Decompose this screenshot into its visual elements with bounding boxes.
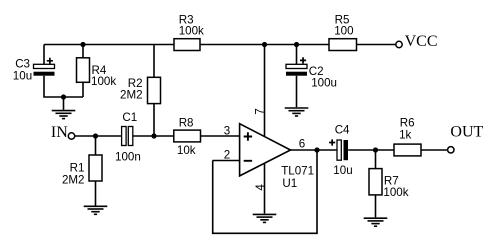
svg-text:OUT: OUT bbox=[450, 124, 483, 141]
node rail-pin7 bbox=[262, 42, 267, 47]
wire C1 to R8 bbox=[133, 135, 174, 137]
svg-text:U1: U1 bbox=[282, 177, 297, 190]
svg-text:100k: 100k bbox=[179, 25, 204, 38]
resistor R5 bbox=[329, 39, 357, 51]
ground under R1 bbox=[84, 206, 108, 214]
capacitor C1 bbox=[122, 127, 133, 146]
svg-text:R8: R8 bbox=[179, 117, 194, 130]
svg-text:IN: IN bbox=[51, 124, 68, 141]
node rail-R4 bbox=[80, 42, 85, 47]
wire C3 bottom to ground node bbox=[44, 76, 83, 97]
svg-text:2M2: 2M2 bbox=[62, 174, 85, 187]
wire R4 bottom bbox=[82, 82, 84, 97]
svg-text:3: 3 bbox=[224, 124, 230, 137]
wire R8 to pin 3 bbox=[201, 135, 240, 137]
capacitor C3 bbox=[34, 58, 55, 76]
wire pin 7 riser bbox=[264, 45, 266, 138]
ground pin 4 bbox=[253, 214, 277, 222]
resistor R3 bbox=[174, 39, 200, 51]
op-amp plus input mark bbox=[244, 132, 252, 140]
resistor R6 bbox=[394, 144, 421, 156]
wire R6 to OUT bbox=[421, 149, 448, 151]
svg-text:10u: 10u bbox=[333, 164, 352, 177]
wire C4 to R6 bbox=[348, 149, 394, 151]
svg-text:VCC: VCC bbox=[405, 33, 438, 50]
resistor R8 bbox=[174, 130, 201, 142]
wire pin 4 drop bbox=[264, 163, 266, 214]
svg-text:4: 4 bbox=[254, 184, 267, 191]
node C3-ground bbox=[61, 94, 66, 99]
svg-text:1k: 1k bbox=[399, 128, 411, 141]
node R2-C1 bbox=[151, 133, 156, 138]
svg-text:10k: 10k bbox=[177, 144, 196, 157]
node rail-C2 bbox=[294, 42, 299, 47]
ground under C3 bbox=[52, 111, 76, 119]
svg-text:7: 7 bbox=[254, 108, 267, 114]
svg-text:TL071: TL071 bbox=[281, 165, 314, 178]
wire pin 2 stub bbox=[213, 160, 240, 162]
wire ground stem under C3 bbox=[63, 97, 65, 110]
capacitor C2 bbox=[286, 57, 307, 75]
op-amp minus input mark bbox=[244, 160, 252, 162]
wire R2 riser from rail bbox=[153, 45, 155, 78]
terminal OUT circle bbox=[448, 147, 454, 153]
svg-text:C4: C4 bbox=[335, 124, 350, 137]
op-amp U1 triangle bbox=[240, 124, 291, 176]
svg-text:100k: 100k bbox=[383, 186, 408, 199]
wire IN to C1 bbox=[75, 135, 122, 137]
wire C2 to ground bbox=[296, 76, 298, 108]
ground under C2 bbox=[285, 108, 309, 116]
svg-text:100: 100 bbox=[334, 24, 353, 37]
svg-text:R1: R1 bbox=[70, 161, 85, 174]
svg-text:10u: 10u bbox=[13, 69, 32, 82]
wire R1 to ground bbox=[95, 181, 97, 206]
wire left drop to C3 bbox=[43, 45, 45, 65]
svg-text:2M2: 2M2 bbox=[120, 89, 143, 102]
svg-text:100k: 100k bbox=[91, 75, 116, 88]
wire R2 bottom to input node bbox=[153, 104, 155, 137]
wire R7 drop bbox=[375, 150, 377, 169]
resistor R1 bbox=[89, 155, 102, 181]
svg-text:C1: C1 bbox=[122, 111, 137, 124]
capacitor C4 bbox=[329, 139, 348, 160]
resistor R4 bbox=[77, 58, 90, 83]
wire output pin 6 bbox=[290, 149, 338, 151]
node pin6-feedback bbox=[314, 147, 319, 152]
wire R7 to ground bbox=[375, 195, 377, 218]
svg-text:6: 6 bbox=[299, 137, 305, 150]
resistor R2 bbox=[148, 77, 161, 103]
wire top rail VCC bbox=[44, 44, 396, 46]
wire R1 drop bbox=[95, 136, 97, 155]
resistor R7 bbox=[369, 169, 382, 195]
wire C2 drop from rail bbox=[296, 45, 298, 65]
node IN-R1 bbox=[93, 133, 98, 138]
terminal IN circle bbox=[68, 133, 74, 139]
wire feedback loop bbox=[213, 150, 317, 233]
node C4-R7 bbox=[373, 147, 378, 152]
terminal VCC circle bbox=[396, 41, 402, 47]
wire R4 top bbox=[82, 45, 84, 59]
svg-text:100n: 100n bbox=[115, 151, 141, 164]
ground under R7 bbox=[364, 218, 388, 226]
svg-text:2: 2 bbox=[224, 149, 230, 162]
svg-text:100u: 100u bbox=[311, 76, 337, 89]
